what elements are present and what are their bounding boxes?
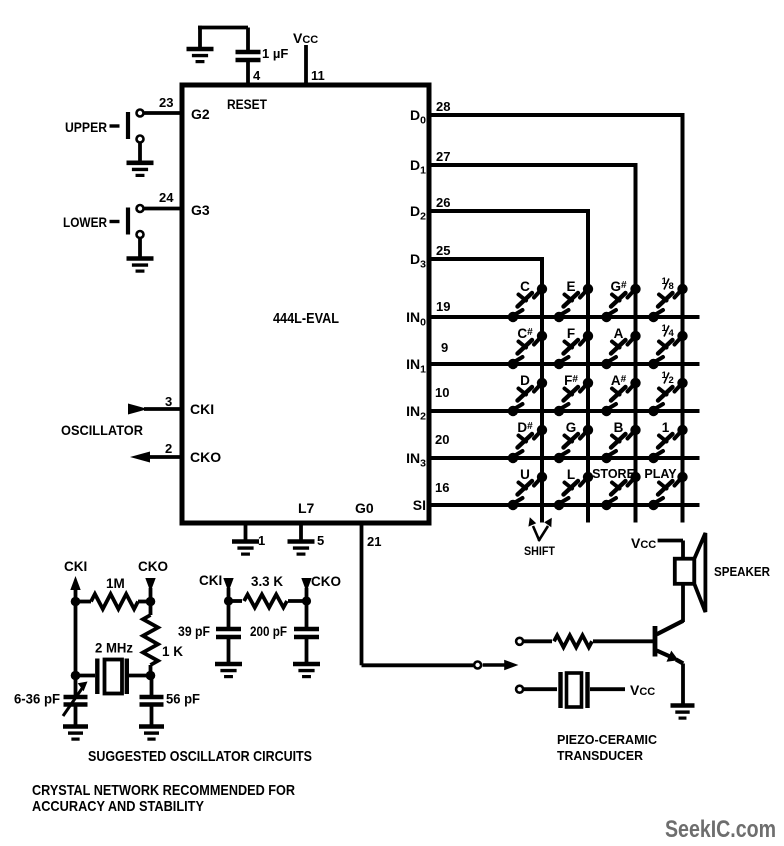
svg-text:1 K: 1 K <box>162 644 183 659</box>
terminal node piezo <box>516 686 523 693</box>
pin label SI <box>413 497 426 513</box>
column wire D0 <box>681 113 685 523</box>
svg-text:ACCURACY AND STABILITY: ACCURACY AND STABILITY <box>32 798 204 815</box>
svg-text:OSCILLATOR: OSCILLATOR <box>61 422 143 438</box>
terminal node G0 <box>474 662 481 669</box>
svg-text:G3: G3 <box>191 202 210 218</box>
pin 5 wire <box>299 523 303 540</box>
key label A# <box>611 373 627 388</box>
svg-text:39 pF: 39 pF <box>178 624 210 639</box>
pin 21 label <box>367 534 381 549</box>
key label G# <box>610 279 627 294</box>
value label 56 pF <box>166 692 200 707</box>
key switch A row 9 col D1 <box>601 331 640 369</box>
svg-text:9: 9 <box>441 340 448 355</box>
capacitor C1 1uF <box>236 28 261 86</box>
svg-text:10: 10 <box>435 385 449 400</box>
ground reset <box>187 26 214 62</box>
node B1 <box>224 596 233 605</box>
svg-text:2 MHz: 2 MHz <box>95 641 133 656</box>
svg-text:D: D <box>520 373 530 388</box>
row wire IN2 pin 10 <box>429 409 700 413</box>
svg-text:4: 4 <box>253 68 261 83</box>
pin 24 label <box>159 190 174 205</box>
svg-text:26: 26 <box>436 195 450 210</box>
capacitor 39 pF <box>216 601 241 662</box>
value label 1 uF <box>262 46 288 61</box>
power VCC speaker <box>631 535 683 559</box>
node A2 <box>146 597 156 607</box>
svg-text:PIEZO-CERAMIC: PIEZO-CERAMIC <box>557 732 658 747</box>
svg-text:CKO: CKO <box>138 559 168 574</box>
label PIEZO-CERAMIC <box>557 732 658 747</box>
svg-text:CRYSTAL NETWORK RECOMMENDED FO: CRYSTAL NETWORK RECOMMENDED FOR <box>32 782 295 799</box>
svg-text:56 pF: 56 pF <box>166 692 200 707</box>
ground 56pF <box>139 727 164 740</box>
wire CKI arrow down B <box>223 578 233 601</box>
wire LOWER to ground <box>138 239 142 257</box>
key switch D# row 20 col D3 <box>508 425 547 463</box>
key switch G# row 19 col D1 <box>601 284 640 322</box>
ground 39pF <box>215 664 242 677</box>
pin 2 wire CKO output arrow <box>130 452 182 463</box>
key switch A# row 10 col D1 <box>601 378 640 416</box>
arrow G0 to driver <box>483 660 519 671</box>
wire reset top <box>198 26 248 30</box>
ground 200pF <box>293 664 320 677</box>
label CKI circuit B <box>199 573 222 588</box>
row wire IN1 pin 9 <box>429 362 700 366</box>
value label 1M <box>106 576 125 591</box>
piezo-ceramic transducer Y1 <box>524 672 625 708</box>
key label 1/8 <box>662 276 674 292</box>
key label U <box>520 467 530 482</box>
wire G0 pin 21 <box>362 523 474 665</box>
label TRANSDUCER <box>557 748 644 763</box>
key label 1/2 <box>662 370 674 386</box>
pin label D2 <box>410 203 426 223</box>
pin label RESET <box>227 97 268 112</box>
resistor R1 base <box>524 635 653 647</box>
row wire IN3 pin 20 <box>429 456 700 460</box>
svg-text:20: 20 <box>435 432 449 447</box>
pin label G2 <box>191 106 210 122</box>
key label E <box>566 279 575 294</box>
key switch F# row 10 col D2 <box>554 378 593 416</box>
key label F# <box>564 373 578 388</box>
pin 19 label <box>436 299 450 314</box>
svg-text:23: 23 <box>159 95 173 110</box>
pin 1 label <box>258 533 265 548</box>
label OSCILLATOR <box>61 422 143 438</box>
pin label L7 <box>298 500 315 516</box>
op-amp U1 444L-EVAL IC outline <box>182 85 429 523</box>
svg-text:SI: SI <box>413 497 426 513</box>
svg-text:2: 2 <box>165 441 172 456</box>
speaker SP1 <box>675 533 706 612</box>
svg-text:27: 27 <box>436 149 450 164</box>
svg-text:6-36 pF: 6-36 pF <box>14 692 60 707</box>
pin label IN0 <box>406 309 426 329</box>
ground pin 5 <box>288 542 315 555</box>
power VCC top <box>293 30 318 85</box>
svg-text:SeekIC.com: SeekIC.com <box>665 816 776 843</box>
svg-text:SPEAKER: SPEAKER <box>714 565 770 579</box>
svg-text:25: 25 <box>436 243 450 258</box>
svg-text:21: 21 <box>367 534 381 549</box>
svg-text:19: 19 <box>436 299 450 314</box>
node B2 <box>302 596 311 605</box>
svg-text:G2: G2 <box>191 106 210 122</box>
value label 200 pF <box>250 624 287 639</box>
key switch L row 16 col D2 <box>554 472 593 510</box>
svg-text:200 pF: 200 pF <box>250 624 287 639</box>
key switch C row 19 col D3 <box>508 284 547 322</box>
svg-text:CKI: CKI <box>64 559 87 574</box>
pin label D1 <box>410 157 426 177</box>
svg-text:LOWER: LOWER <box>63 214 107 230</box>
ground LOWER <box>127 259 154 272</box>
wire D1 pin 27 <box>429 163 636 167</box>
column wire D3 <box>540 257 544 523</box>
pin label IN1 <box>406 356 426 376</box>
label SHIFT <box>524 546 555 558</box>
svg-text:1: 1 <box>258 533 265 548</box>
svg-text:CKO: CKO <box>190 449 221 465</box>
terminal node base resistor <box>516 638 523 645</box>
key switch C# row 9 col D3 <box>508 331 547 369</box>
svg-text:PLAY: PLAY <box>644 467 677 481</box>
pin label CKO <box>190 449 221 465</box>
svg-text:SHIFT: SHIFT <box>524 546 555 558</box>
svg-text:B: B <box>614 420 624 435</box>
wire D2 pin 26 <box>429 209 588 213</box>
pin label G3 <box>191 202 210 218</box>
key label A <box>614 326 624 341</box>
key label PLAY <box>644 467 677 481</box>
pin label G0 <box>355 500 374 516</box>
wire to ground varcap <box>74 707 78 726</box>
pin 4 label <box>253 68 261 83</box>
svg-text:3: 3 <box>165 394 172 409</box>
svg-text:1: 1 <box>662 420 670 435</box>
pin 1 wire <box>244 523 248 540</box>
pin 20 label <box>435 432 449 447</box>
value label 3.3 K <box>251 574 283 589</box>
pin 11 label <box>311 68 325 83</box>
key switch STORE row 16 col D1 <box>601 472 640 510</box>
svg-text:16: 16 <box>435 480 449 495</box>
ground varcap <box>63 727 88 740</box>
capacitor 56 pF <box>140 676 164 705</box>
svg-text:CKI: CKI <box>199 573 222 588</box>
key label L <box>567 467 575 482</box>
svg-text:1 µF: 1 µF <box>262 46 288 61</box>
key label C# <box>517 326 533 341</box>
wire collector to speaker <box>681 584 685 622</box>
svg-text:28: 28 <box>436 99 450 114</box>
ground UPPER <box>127 163 154 176</box>
pin label CKI <box>190 401 214 417</box>
pin 23 label <box>159 95 173 110</box>
svg-text:F: F <box>567 326 575 341</box>
key switch 1/4 row 9 col D0 <box>648 331 687 369</box>
svg-text:UPPER: UPPER <box>65 119 107 135</box>
pin 5 label <box>317 533 324 548</box>
key label D# <box>517 420 533 435</box>
svg-text:STORE: STORE <box>592 467 635 481</box>
key switch F row 9 col D2 <box>554 331 593 369</box>
key label F <box>567 326 575 341</box>
row wire IN0 pin 19 <box>429 315 700 319</box>
caption CRYSTAL NETWORK RECOMMENDED FOR <box>32 782 295 799</box>
svg-text:3.3 K: 3.3 K <box>251 574 283 589</box>
resistor 1K <box>143 602 158 676</box>
pin 27 label <box>436 149 450 164</box>
pin 25 label <box>436 243 450 258</box>
pin 2 label <box>165 441 172 456</box>
svg-text:U: U <box>520 467 530 482</box>
label CKO circuit A <box>138 559 168 574</box>
wire to ground 56pF <box>150 707 154 726</box>
power VCC piezo <box>630 682 655 698</box>
key switch 1 row 20 col D0 <box>648 425 687 463</box>
node A4 <box>146 671 156 681</box>
wire D0 pin 28 <box>429 113 683 117</box>
pin label D3 <box>410 251 426 271</box>
wire D3 pin 25 <box>429 257 542 261</box>
label CKO circuit B <box>311 574 341 589</box>
pushbutton switch UPPER <box>110 110 183 143</box>
label SPEAKER <box>714 565 770 579</box>
crystal X1 2 MHz <box>76 659 151 695</box>
resistor 3.3 K <box>229 595 307 608</box>
label LOWER <box>63 214 107 230</box>
resistor 1M <box>76 594 151 609</box>
svg-text:2: 2 <box>669 375 674 386</box>
ground emitter <box>671 706 695 719</box>
label 444L-EVAL <box>273 310 339 327</box>
svg-text:1M: 1M <box>106 576 125 591</box>
pin 28 label <box>436 99 450 114</box>
svg-text:C: C <box>520 279 530 294</box>
pin 3 wire CKI input arrow <box>128 404 182 415</box>
ground pin 1 <box>232 542 259 555</box>
svg-text:L: L <box>567 467 575 482</box>
column wire D2 <box>586 209 590 523</box>
value label 6-36 pF <box>14 692 60 707</box>
label CKI circuit A <box>64 559 87 574</box>
key label D <box>520 373 530 388</box>
key switch B row 20 col D1 <box>601 425 640 463</box>
variable capacitor 6-36 pF <box>63 676 88 717</box>
svg-text:CKI: CKI <box>190 401 214 417</box>
capacitor 200 pF <box>294 601 319 662</box>
svg-text:G0: G0 <box>355 500 374 516</box>
wire UPPER to ground <box>138 144 142 162</box>
svg-text:E: E <box>566 279 575 294</box>
label UPPER <box>65 119 107 135</box>
node A3 <box>71 671 81 681</box>
svg-text:SUGGESTED OSCILLATOR CIRCUITS: SUGGESTED OSCILLATOR CIRCUITS <box>88 748 312 765</box>
key label 1 <box>662 420 670 435</box>
svg-text:4: 4 <box>669 328 675 339</box>
svg-text:CKO: CKO <box>311 574 341 589</box>
wire left branch <box>74 602 78 676</box>
transistor Q1 <box>655 621 683 705</box>
svg-text:24: 24 <box>159 190 174 205</box>
pushbutton switch LOWER <box>110 205 183 238</box>
caption ACCURACY AND STABILITY <box>32 798 204 815</box>
svg-text:A: A <box>614 326 624 341</box>
pin label D0 <box>410 107 426 127</box>
key switch 1/8 row 19 col D0 <box>648 284 687 322</box>
key label B <box>614 420 624 435</box>
key label 1/4 <box>662 323 675 339</box>
pin label IN3 <box>406 450 426 470</box>
pin 16 label <box>435 480 449 495</box>
svg-text:8: 8 <box>669 281 674 292</box>
svg-text:L7: L7 <box>298 500 315 516</box>
watermark SeekIC.com <box>665 816 776 843</box>
key switch PLAY row 16 col D0 <box>648 472 687 510</box>
pin label IN2 <box>406 403 426 423</box>
pin 26 label <box>436 195 450 210</box>
key label C <box>520 279 530 294</box>
key switch E row 19 col D2 <box>554 284 593 322</box>
value label 1 K <box>162 644 183 659</box>
node A1 <box>71 597 81 607</box>
wire CKO arrow down B <box>301 578 311 601</box>
key label G <box>566 420 577 435</box>
pin 9 label <box>441 340 448 355</box>
pin 3 label <box>165 394 172 409</box>
row wire SI pin 16 <box>429 503 700 507</box>
wire CKO arrow down <box>145 578 155 602</box>
svg-text:444L-EVAL: 444L-EVAL <box>273 310 339 327</box>
value label 39 pF <box>178 624 210 639</box>
svg-text:11: 11 <box>311 68 325 83</box>
svg-text:5: 5 <box>317 533 324 548</box>
SHIFT arrows <box>528 517 551 541</box>
column wire D1 <box>634 163 638 523</box>
svg-text:RESET: RESET <box>227 97 268 112</box>
key switch G row 20 col D2 <box>554 425 593 463</box>
key switch D row 10 col D3 <box>508 378 547 416</box>
svg-text:G: G <box>566 420 577 435</box>
key switch 1/2 row 10 col D0 <box>648 378 687 416</box>
caption SUGGESTED OSCILLATOR CIRCUITS <box>88 748 312 765</box>
wire CKI arrow up <box>70 576 80 602</box>
pin 10 label <box>435 385 449 400</box>
svg-text:TRANSDUCER: TRANSDUCER <box>557 748 644 763</box>
key label STORE <box>592 467 635 481</box>
value label 2 MHz <box>95 641 133 656</box>
key switch U row 16 col D3 <box>508 472 547 510</box>
